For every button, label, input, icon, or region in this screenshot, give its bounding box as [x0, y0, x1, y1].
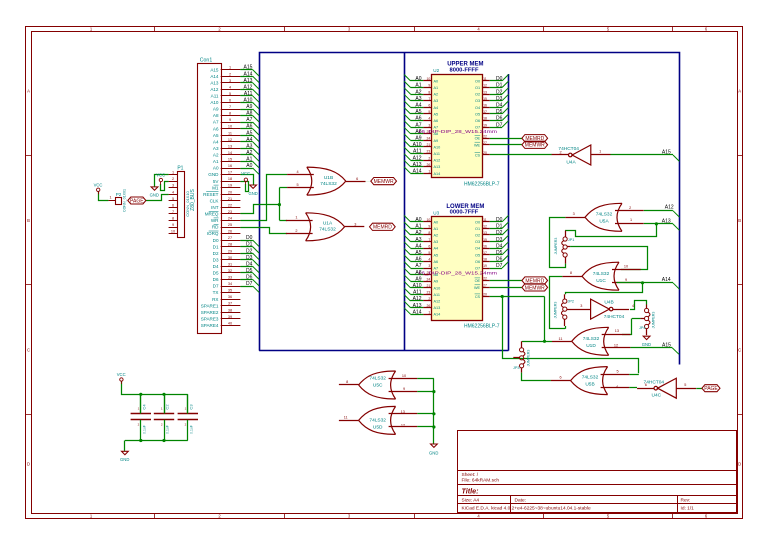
- svg-text:12: 12: [228, 138, 232, 142]
- svg-text:13: 13: [483, 231, 487, 235]
- svg-text:3: 3: [573, 212, 575, 216]
- svg-text:A12: A12: [243, 84, 252, 90]
- svg-text:A8: A8: [246, 111, 252, 117]
- svg-text:5V: 5V: [213, 179, 220, 184]
- svg-text:9: 9: [428, 225, 430, 229]
- svg-text:D5: D5: [213, 271, 219, 276]
- svg-text:JUMPER3: JUMPER3: [554, 238, 558, 255]
- svg-text:27: 27: [228, 236, 232, 240]
- svg-text:6: 6: [229, 99, 231, 103]
- svg-text:RESET: RESET: [203, 192, 219, 197]
- svg-text:OE: OE: [475, 279, 481, 283]
- svg-text:3: 3: [428, 264, 430, 268]
- svg-text:8000-FFFF: 8000-FFFF: [450, 67, 479, 73]
- svg-text:16_DIP-DIP_28_W15.24mm: 16_DIP-DIP_28_W15.24mm: [418, 129, 497, 134]
- svg-text:21: 21: [427, 284, 431, 288]
- svg-text:GND: GND: [120, 457, 129, 462]
- svg-text:3: 3: [580, 304, 582, 308]
- svg-text:A14: A14: [243, 71, 252, 77]
- svg-text:B: B: [27, 218, 30, 223]
- svg-text:O0: O0: [475, 79, 480, 83]
- svg-text:9: 9: [403, 387, 405, 391]
- svg-text:A9: A9: [246, 104, 252, 110]
- svg-text:10: 10: [427, 77, 431, 81]
- svg-text:M1: M1: [212, 185, 219, 190]
- svg-text:A2: A2: [434, 93, 439, 97]
- svg-text:CS: CS: [475, 154, 481, 158]
- svg-text:JP3: JP3: [513, 366, 520, 370]
- svg-text:D4: D4: [213, 264, 219, 269]
- svg-text:8: 8: [229, 112, 231, 116]
- svg-text:A4: A4: [434, 106, 439, 110]
- svg-text:D5: D5: [496, 250, 503, 256]
- svg-text:A6: A6: [415, 116, 421, 122]
- svg-text:RX: RX: [212, 297, 218, 302]
- svg-text:A6: A6: [434, 119, 439, 123]
- svg-text:A1: A1: [415, 224, 421, 230]
- svg-text:6: 6: [428, 244, 430, 248]
- svg-text:A11: A11: [244, 91, 253, 97]
- svg-text:GND: GND: [248, 191, 257, 196]
- svg-text:A: A: [738, 88, 741, 93]
- svg-text:O4: O4: [475, 247, 480, 251]
- svg-text:MREQ: MREQ: [205, 212, 219, 217]
- svg-text:D7: D7: [496, 122, 503, 128]
- svg-text:36: 36: [228, 295, 232, 299]
- svg-text:D6: D6: [496, 257, 503, 263]
- svg-text:29: 29: [228, 249, 232, 253]
- svg-text:32: 32: [228, 269, 232, 273]
- svg-text:10: 10: [228, 125, 232, 129]
- svg-text:D7: D7: [496, 263, 503, 269]
- svg-text:1: 1: [428, 170, 430, 174]
- svg-text:O2: O2: [475, 234, 480, 238]
- svg-text:2: 2: [428, 156, 430, 160]
- svg-text:A11: A11: [434, 152, 440, 156]
- svg-text:16: 16: [483, 244, 487, 248]
- svg-text:3: 3: [354, 223, 356, 227]
- svg-text:1: 1: [295, 216, 297, 220]
- svg-text:D3: D3: [496, 96, 503, 102]
- svg-text:IORQ: IORQ: [207, 231, 219, 236]
- svg-text:A15: A15: [210, 67, 219, 72]
- svg-text:D2: D2: [496, 230, 503, 236]
- svg-text:D0: D0: [246, 235, 253, 241]
- svg-text:C2: C2: [165, 404, 170, 410]
- svg-text:A6: A6: [415, 257, 421, 263]
- svg-text:A1: A1: [415, 83, 421, 89]
- svg-text:U1A: U1A: [323, 221, 333, 227]
- svg-text:D3: D3: [496, 237, 503, 243]
- svg-text:D6: D6: [496, 116, 503, 122]
- svg-text:40: 40: [228, 321, 232, 325]
- svg-text:11: 11: [559, 337, 563, 341]
- svg-text:A13: A13: [210, 80, 219, 85]
- svg-text:8: 8: [428, 90, 430, 94]
- svg-text:O6: O6: [475, 119, 480, 123]
- svg-text:A4: A4: [246, 137, 252, 143]
- svg-text:8: 8: [570, 271, 572, 275]
- svg-text:12: 12: [401, 423, 405, 427]
- svg-text:D5: D5: [246, 268, 253, 274]
- svg-text:5: 5: [428, 251, 430, 255]
- svg-text:1: 1: [229, 66, 231, 70]
- svg-text:74LS32: 74LS32: [369, 418, 386, 424]
- svg-text:22: 22: [228, 203, 232, 207]
- svg-text:1: 1: [109, 196, 111, 200]
- svg-text:25: 25: [228, 223, 232, 227]
- svg-text:5: 5: [684, 383, 686, 387]
- svg-text:A2: A2: [246, 150, 252, 156]
- svg-text:4: 4: [616, 385, 618, 389]
- svg-text:A1: A1: [213, 159, 219, 164]
- svg-text:11: 11: [228, 131, 232, 135]
- svg-text:WE: WE: [474, 286, 481, 290]
- svg-text:10: 10: [624, 265, 628, 269]
- svg-text:1: 1: [630, 218, 632, 222]
- svg-text:U3: U3: [433, 211, 439, 216]
- svg-text:0.1uF: 0.1uF: [142, 425, 146, 434]
- svg-text:RD: RD: [212, 225, 219, 230]
- svg-text:A5: A5: [246, 130, 252, 136]
- svg-text:A7: A7: [415, 122, 421, 128]
- svg-text:A5: A5: [415, 250, 421, 256]
- svg-text:KiCad E.D.A. kicad 4.0.2+e4-6: KiCad E.D.A. kicad 4.0.2+e4-6225~38~ubun…: [462, 506, 592, 512]
- svg-text:33: 33: [228, 276, 232, 280]
- svg-text:2: 2: [172, 177, 174, 181]
- svg-text:8: 8: [172, 217, 174, 221]
- svg-text:A8: A8: [213, 113, 219, 118]
- svg-text:18: 18: [483, 117, 487, 121]
- svg-text:A0: A0: [434, 220, 439, 224]
- svg-text:MEMWR: MEMWR: [374, 179, 394, 185]
- svg-text:A10: A10: [434, 286, 441, 290]
- svg-text:A3: A3: [415, 96, 421, 102]
- svg-text:D6: D6: [213, 277, 219, 282]
- svg-text:6: 6: [645, 383, 647, 387]
- svg-text:A4: A4: [415, 103, 421, 109]
- svg-text:JP1: JP1: [568, 238, 575, 242]
- svg-text:23: 23: [427, 150, 431, 154]
- svg-text:24: 24: [228, 217, 232, 221]
- svg-text:A13: A13: [243, 78, 252, 84]
- svg-text:1: 1: [428, 310, 430, 314]
- svg-text:A11: A11: [434, 293, 440, 297]
- svg-text:U1B: U1B: [324, 175, 333, 181]
- svg-text:Con1: Con1: [200, 58, 213, 64]
- svg-text:HM62256BLP-7: HM62256BLP-7: [464, 324, 500, 330]
- svg-text:A13: A13: [434, 165, 441, 169]
- svg-text:A11: A11: [413, 149, 422, 155]
- svg-text:SPARE1: SPARE1: [201, 303, 219, 308]
- svg-text:A9: A9: [415, 136, 421, 142]
- svg-text:0.1uF: 0.1uF: [189, 425, 193, 434]
- svg-text:38: 38: [228, 308, 232, 312]
- svg-text:D6: D6: [246, 275, 253, 281]
- svg-text:A15: A15: [662, 342, 671, 348]
- svg-text:A13: A13: [413, 303, 422, 309]
- svg-text:A1: A1: [434, 227, 439, 231]
- svg-text:A2: A2: [213, 153, 219, 158]
- svg-text:11: 11: [483, 77, 487, 81]
- svg-text:D0: D0: [496, 217, 503, 223]
- svg-text:2: 2: [428, 297, 430, 301]
- svg-text:4: 4: [428, 117, 430, 121]
- svg-text:A12: A12: [413, 155, 422, 161]
- svg-text:13: 13: [228, 144, 232, 148]
- svg-text:9: 9: [172, 223, 174, 227]
- svg-text:A0: A0: [415, 76, 421, 82]
- svg-text:OE: OE: [475, 137, 481, 141]
- svg-text:D7: D7: [213, 284, 219, 289]
- svg-text:A11: A11: [413, 290, 422, 296]
- svg-text:A: A: [27, 88, 30, 93]
- svg-text:5: 5: [229, 92, 231, 96]
- svg-text:MEMRD: MEMRD: [373, 225, 392, 231]
- svg-text:2: 2: [629, 206, 631, 210]
- svg-text:A0: A0: [415, 217, 421, 223]
- svg-text:A5: A5: [434, 112, 439, 116]
- svg-text:Id: 1/1: Id: 1/1: [681, 506, 695, 512]
- svg-text:A4: A4: [415, 243, 421, 249]
- svg-text:74LS32: 74LS32: [583, 336, 600, 342]
- svg-text:6: 6: [560, 375, 562, 379]
- svg-text:17: 17: [228, 171, 232, 175]
- svg-text:A14: A14: [413, 169, 422, 175]
- svg-text:13: 13: [615, 329, 619, 333]
- svg-text:10: 10: [427, 218, 431, 222]
- svg-text:File: 64kRAM.sch: File: 64kRAM.sch: [462, 478, 500, 484]
- svg-text:A12: A12: [434, 300, 441, 304]
- svg-text:21: 21: [228, 197, 232, 201]
- svg-text:PAGE: PAGE: [130, 198, 144, 204]
- svg-text:12: 12: [614, 344, 618, 348]
- svg-text:A10: A10: [434, 145, 441, 149]
- svg-text:20: 20: [483, 293, 487, 297]
- svg-text:0.1uF: 0.1uF: [166, 425, 170, 434]
- svg-text:P1: P1: [177, 166, 183, 172]
- svg-text:A15: A15: [662, 149, 671, 155]
- svg-text:CONN_01X10: CONN_01X10: [185, 190, 190, 216]
- svg-text:0000-7FFF: 0000-7FFF: [450, 210, 479, 216]
- svg-text:22: 22: [483, 277, 487, 281]
- svg-text:15: 15: [483, 97, 487, 101]
- svg-text:10: 10: [402, 374, 406, 378]
- svg-text:A9: A9: [434, 280, 439, 284]
- svg-text:SPARE3: SPARE3: [201, 316, 219, 321]
- svg-text:A12: A12: [210, 87, 219, 92]
- svg-text:19: 19: [483, 123, 487, 127]
- svg-text:A6: A6: [213, 126, 219, 131]
- svg-text:D1: D1: [496, 224, 503, 230]
- svg-text:C: C: [738, 347, 741, 352]
- svg-text:23: 23: [228, 210, 232, 214]
- svg-text:17: 17: [483, 251, 487, 255]
- svg-text:A1: A1: [434, 86, 439, 90]
- svg-text:3: 3: [229, 79, 231, 83]
- svg-text:O3: O3: [475, 99, 480, 103]
- svg-text:16: 16: [228, 164, 232, 168]
- svg-text:A14: A14: [434, 172, 441, 176]
- svg-text:D2: D2: [496, 89, 503, 95]
- svg-text:4: 4: [229, 85, 231, 89]
- svg-text:26: 26: [427, 163, 431, 167]
- svg-text:A6: A6: [246, 124, 252, 130]
- svg-text:23: 23: [427, 291, 431, 295]
- svg-text:6: 6: [428, 104, 430, 108]
- svg-text:MEMWR: MEMWR: [525, 143, 545, 149]
- svg-text:A10: A10: [243, 98, 252, 104]
- svg-text:WE: WE: [474, 143, 481, 147]
- svg-text:16: 16: [483, 104, 487, 108]
- svg-text:GND: GND: [150, 192, 159, 197]
- svg-text:74LS32: 74LS32: [582, 375, 599, 381]
- svg-text:74LS32: 74LS32: [319, 227, 336, 233]
- svg-text:A5: A5: [213, 133, 219, 138]
- svg-text:35: 35: [228, 289, 232, 293]
- svg-text:VCC: VCC: [156, 172, 165, 177]
- svg-text:3: 3: [172, 184, 174, 188]
- svg-text:5: 5: [296, 183, 298, 187]
- svg-text:8: 8: [346, 380, 348, 384]
- svg-text:A12: A12: [434, 159, 441, 163]
- svg-text:A13: A13: [662, 218, 671, 224]
- svg-text:CONN_01X01: CONN_01X01: [122, 189, 126, 212]
- svg-text:D1: D1: [246, 242, 253, 248]
- svg-text:O5: O5: [475, 253, 480, 257]
- svg-text:SPARE2: SPARE2: [201, 310, 219, 315]
- svg-text:U1C: U1C: [596, 278, 606, 284]
- svg-text:4: 4: [172, 190, 174, 194]
- svg-text:A3: A3: [213, 146, 219, 151]
- svg-text:A14: A14: [434, 313, 441, 317]
- svg-text:D2: D2: [213, 251, 219, 256]
- svg-text:U5C: U5C: [373, 382, 383, 388]
- svg-text:5: 5: [616, 370, 618, 374]
- svg-text:Size: A4: Size: A4: [462, 498, 480, 504]
- svg-text:A2: A2: [415, 89, 421, 95]
- svg-text:D: D: [27, 461, 30, 466]
- svg-text:A5: A5: [434, 253, 439, 257]
- svg-text:INT: INT: [211, 205, 219, 210]
- svg-text:D3: D3: [246, 255, 253, 261]
- svg-text:A14: A14: [413, 309, 422, 315]
- svg-text:74HCT04: 74HCT04: [558, 146, 579, 152]
- svg-text:Date:: Date:: [515, 498, 526, 504]
- svg-text:16_DIP-DIP_28_W15.24mm: 16_DIP-DIP_28_W15.24mm: [418, 271, 497, 276]
- svg-text:CS: CS: [475, 295, 481, 299]
- svg-text:12: 12: [483, 84, 487, 88]
- svg-text:A2: A2: [415, 230, 421, 236]
- svg-text:7: 7: [172, 210, 174, 214]
- svg-text:2: 2: [295, 229, 297, 233]
- svg-text:27: 27: [483, 284, 487, 288]
- svg-text:12: 12: [483, 225, 487, 229]
- svg-text:74LS32: 74LS32: [593, 271, 610, 277]
- svg-text:10: 10: [171, 230, 175, 234]
- svg-text:A6: A6: [434, 260, 439, 264]
- svg-text:1: 1: [172, 171, 174, 175]
- svg-text:Rev:: Rev:: [681, 498, 691, 504]
- svg-text:7: 7: [229, 105, 231, 109]
- svg-text:A0: A0: [246, 163, 252, 169]
- svg-text:U4A: U4A: [566, 160, 576, 166]
- svg-text:A9: A9: [415, 276, 421, 282]
- svg-text:31: 31: [228, 262, 232, 266]
- svg-text:19: 19: [483, 264, 487, 268]
- svg-text:4: 4: [632, 304, 634, 308]
- svg-text:JUMPER3: JUMPER3: [554, 302, 558, 319]
- svg-text:D7: D7: [246, 281, 253, 287]
- svg-text:11: 11: [344, 415, 348, 419]
- svg-text:U4B: U4B: [604, 300, 613, 306]
- svg-text:74LS32: 74LS32: [320, 181, 337, 187]
- svg-text:7: 7: [428, 97, 430, 101]
- svg-text:Sheet: /: Sheet: /: [462, 472, 479, 478]
- svg-text:A10: A10: [210, 100, 219, 105]
- svg-text:D2: D2: [246, 248, 253, 254]
- svg-text:A7: A7: [213, 120, 219, 125]
- svg-text:D4: D4: [496, 103, 503, 109]
- svg-text:26: 26: [228, 230, 232, 234]
- svg-text:B: B: [738, 218, 741, 223]
- svg-text:27: 27: [483, 141, 487, 145]
- svg-text:O3: O3: [475, 240, 480, 244]
- svg-text:A9: A9: [213, 107, 219, 112]
- svg-text:A3: A3: [434, 99, 439, 103]
- svg-text:14: 14: [228, 151, 232, 155]
- svg-text:9: 9: [625, 278, 627, 282]
- svg-text:74HCT04: 74HCT04: [604, 314, 625, 320]
- svg-text:18: 18: [228, 177, 232, 181]
- svg-text:A5: A5: [415, 109, 421, 115]
- svg-text:A12: A12: [413, 296, 422, 302]
- svg-text:24: 24: [427, 277, 431, 281]
- svg-text:A15: A15: [243, 65, 252, 71]
- svg-text:A3: A3: [434, 240, 439, 244]
- svg-text:13: 13: [401, 410, 405, 414]
- svg-text:A11: A11: [211, 94, 219, 99]
- svg-text:D0: D0: [496, 76, 503, 82]
- svg-text:A13: A13: [434, 306, 441, 310]
- svg-text:A10: A10: [413, 142, 422, 148]
- svg-text:GND: GND: [642, 342, 651, 347]
- svg-text:JUMPER3: JUMPER3: [652, 312, 656, 329]
- svg-text:D4: D4: [246, 261, 253, 267]
- svg-text:18: 18: [483, 258, 487, 262]
- svg-text:C4: C4: [141, 404, 146, 410]
- svg-text:C3: C3: [188, 404, 193, 410]
- svg-text:74LS32: 74LS32: [596, 211, 613, 217]
- svg-text:20: 20: [483, 151, 487, 155]
- svg-text:U4C: U4C: [651, 393, 661, 399]
- svg-text:WR: WR: [211, 218, 219, 223]
- svg-text:U5A: U5A: [599, 218, 609, 224]
- svg-text:21: 21: [427, 143, 431, 147]
- svg-text:2: 2: [229, 72, 231, 76]
- svg-text:Title:: Title:: [462, 486, 480, 495]
- svg-text:O2: O2: [475, 93, 480, 97]
- svg-text:34: 34: [228, 282, 232, 286]
- svg-text:A1: A1: [246, 157, 252, 163]
- svg-text:U2: U2: [433, 68, 439, 73]
- svg-text:5: 5: [428, 110, 430, 114]
- svg-text:A4: A4: [434, 247, 439, 251]
- svg-text:GND: GND: [208, 172, 219, 177]
- svg-text:A14: A14: [210, 74, 219, 79]
- svg-text:A14: A14: [662, 277, 671, 283]
- svg-text:7: 7: [428, 238, 430, 242]
